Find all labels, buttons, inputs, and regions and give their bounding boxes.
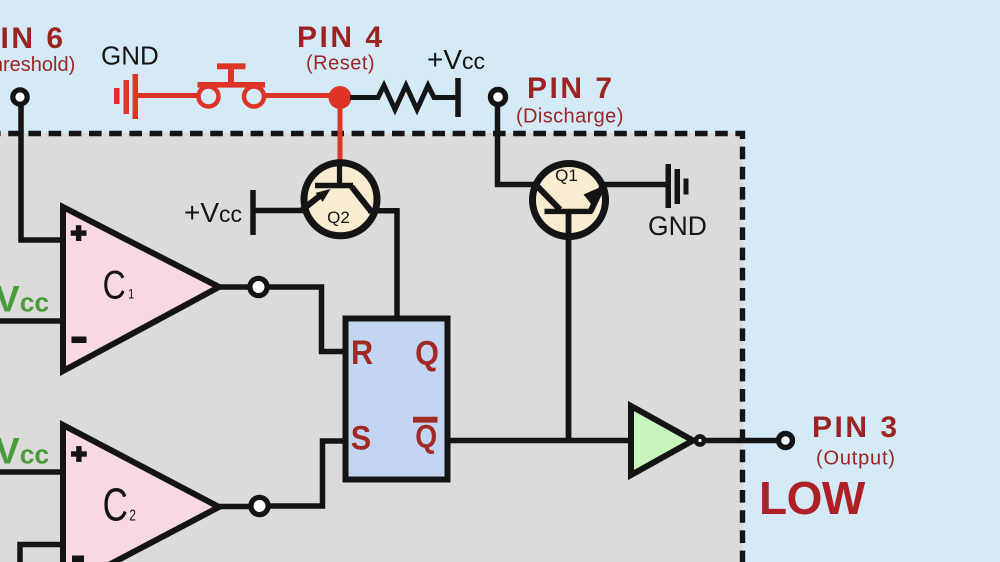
label Q2 bbox=[327, 208, 350, 227]
C2 output bubble bbox=[251, 497, 268, 514]
ground symbol (red, reset switch) bbox=[114, 74, 138, 119]
transistor Q1 bbox=[533, 164, 606, 237]
svg-text:(Threshold): (Threshold) bbox=[0, 54, 75, 76]
wire Q-bar output to buffer bbox=[450, 438, 632, 444]
wire ground to pushbutton (red) bbox=[136, 93, 200, 98]
label +Vcc (Q2 emitter) bbox=[184, 197, 242, 228]
resistor (reset pull-up) bbox=[374, 86, 456, 110]
wire C1 output to R input bbox=[268, 287, 343, 352]
flip-flop (SR latch box) bbox=[346, 319, 448, 480]
label Q1 bbox=[555, 166, 578, 185]
svg-text:+Vcc: +Vcc bbox=[184, 197, 242, 228]
label PIN 6 bbox=[0, 22, 66, 55]
svg-text:PIN 6: PIN 6 bbox=[0, 22, 66, 55]
label PIN 4 bbox=[297, 21, 385, 54]
node PIN 4 junction (red dot) bbox=[329, 86, 352, 109]
wire buffer to PIN 3 bbox=[706, 438, 776, 444]
C2 minus sign bbox=[72, 556, 84, 562]
+Vcc supply bar (Q2) bbox=[250, 190, 256, 235]
label PIN 7 bbox=[527, 72, 615, 105]
svg-text:GND: GND bbox=[101, 41, 159, 71]
wire PIN6 to C1 + input bbox=[21, 104, 63, 240]
label PIN 3 bbox=[812, 411, 900, 444]
label Q bbox=[415, 334, 439, 372]
node PIN 7 terminal bbox=[491, 90, 506, 105]
C2 plus sign bbox=[71, 446, 87, 462]
op-amp C2 (comparator) bbox=[63, 425, 219, 562]
C2 output wire to bubble bbox=[219, 504, 250, 510]
label (Discharge) bbox=[516, 106, 624, 128]
ground symbol (Q1 emitter) bbox=[666, 164, 689, 208]
wire C2 output to S input bbox=[269, 441, 343, 506]
wire C2 - input (from PIN 2) bbox=[20, 545, 63, 562]
wire Q1 emitter to ground bbox=[599, 182, 667, 188]
label GND (Q1) bbox=[648, 211, 707, 241]
svg-text:+Vcc: +Vcc bbox=[427, 44, 485, 75]
C1 plus sign bbox=[71, 225, 87, 241]
IC dashed border bbox=[0, 134, 743, 562]
svg-text:GND: GND bbox=[648, 211, 707, 241]
svg-text:Q: Q bbox=[415, 334, 439, 372]
label (Threshold) bbox=[0, 54, 75, 76]
svg-text:Q2: Q2 bbox=[327, 208, 350, 227]
label 2/3 Vcc (green) bbox=[0, 279, 49, 320]
C1 output bubble bbox=[250, 278, 267, 295]
svg-text:R: R bbox=[351, 334, 373, 372]
svg-text:S: S bbox=[351, 419, 371, 457]
wire C1 - input bbox=[0, 318, 63, 324]
label LOW bbox=[759, 472, 866, 524]
C1 output wire to bubble bbox=[219, 284, 250, 290]
wire Q2 collector to flip-flop top bbox=[368, 211, 397, 318]
pushbutton switch (red) bbox=[198, 66, 266, 106]
node PIN 6 terminal bbox=[13, 90, 27, 104]
svg-text:PIN 7: PIN 7 bbox=[527, 72, 615, 105]
C1 minus sign bbox=[72, 337, 87, 344]
output buffer (inverter) bbox=[631, 406, 693, 475]
node PIN 3 terminal bbox=[779, 434, 793, 448]
+Vcc supply bar (top) bbox=[455, 78, 461, 117]
svg-text:LOW: LOW bbox=[759, 472, 866, 524]
label (Output) bbox=[816, 448, 896, 470]
buffer bubble bbox=[696, 437, 704, 445]
label C1 bbox=[103, 262, 135, 307]
label C2 bbox=[103, 479, 136, 531]
label S bbox=[351, 419, 371, 457]
label 1/3 Vcc (green) bbox=[0, 431, 49, 472]
svg-text:(Reset): (Reset) bbox=[306, 53, 375, 75]
label +Vcc (top) bbox=[427, 44, 485, 75]
wire PIN4 junction down to Q2 base (red) bbox=[338, 97, 343, 161]
wire Vcc bar to Q2 emitter bbox=[253, 208, 305, 214]
label Q-bar bbox=[413, 420, 438, 455]
wire PIN7 to Q1 collector bbox=[498, 104, 539, 185]
IC body (gray box) bbox=[0, 133, 743, 562]
svg-text:Q1: Q1 bbox=[555, 166, 578, 185]
op-amp C1 (comparator) bbox=[63, 207, 219, 371]
label R bbox=[351, 334, 373, 372]
label GND (top left) bbox=[101, 41, 159, 71]
wire Q1 base down to output net bbox=[566, 211, 572, 441]
wire junction to resistor bbox=[350, 95, 375, 100]
svg-text:PIN 3: PIN 3 bbox=[812, 411, 900, 444]
svg-text:(Discharge): (Discharge) bbox=[516, 106, 624, 128]
svg-text:(Output): (Output) bbox=[816, 448, 896, 470]
label (Reset) bbox=[306, 53, 375, 75]
wire C2 + input bbox=[0, 469, 63, 475]
wire pushbutton to PIN4 junction (red) bbox=[264, 93, 340, 98]
svg-text:PIN 4: PIN 4 bbox=[297, 21, 385, 54]
transistor Q2 bbox=[302, 161, 377, 236]
svg-text:Q: Q bbox=[415, 420, 437, 455]
